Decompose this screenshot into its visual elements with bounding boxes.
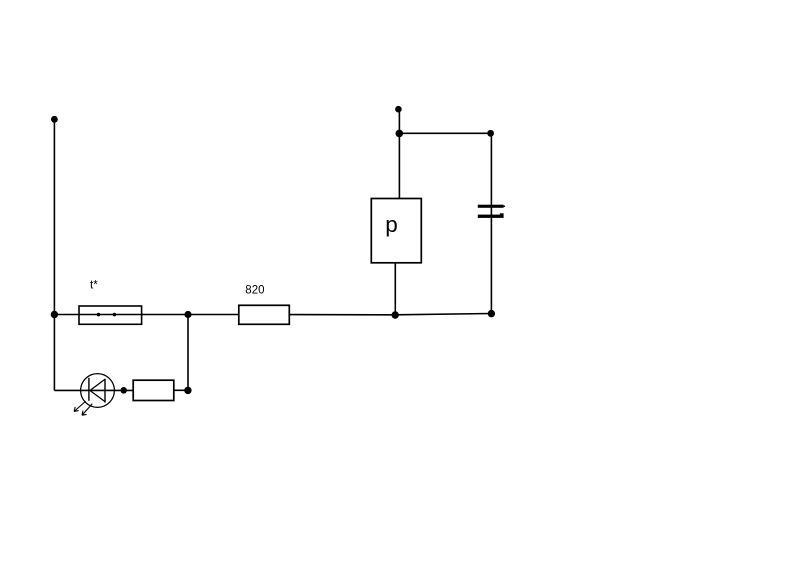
node top-right corner: [487, 130, 494, 137]
node lamp branch right: [184, 387, 191, 394]
wire left vertical from terminal to bottom rail: [53, 119, 55, 314]
sensor t* box: [79, 306, 142, 324]
wire lamp branch horizontal through LED: [54, 389, 133, 391]
capacitor top plate: [478, 205, 504, 208]
svg-text:t*: t*: [90, 280, 98, 292]
wire bottom rail left segment through sensor box: [54, 314, 238, 316]
wire bottom rail middle segment: [289, 314, 395, 316]
wire vertical from junction down to lamp branch: [187, 315, 189, 391]
capacitor bottom plate right bump: [500, 213, 504, 214]
LED cathode bar: [88, 378, 90, 401]
wire right vertical through capacitor: [490, 133, 492, 313]
capacitor top plate right tail: [503, 206, 505, 207]
resistor 820 box: [239, 305, 289, 324]
node left rail junction: [51, 311, 58, 318]
node between LED and resistor: [120, 387, 127, 394]
node top-left terminal: [51, 116, 58, 123]
wire top rail horizontal: [399, 132, 491, 134]
LED triangle lower edge: [90, 391, 105, 402]
node top terminal: [395, 106, 402, 113]
wire from p box bottom to rail: [394, 263, 396, 315]
capacitor bottom plate: [478, 215, 504, 218]
contact dot 2 inside t* box: [113, 313, 117, 317]
LED emission arrow 2: [82, 404, 92, 416]
LED triangle base bar: [104, 379, 106, 403]
node junction right of sensor: [184, 311, 191, 318]
wire lamp branch vertical left: [53, 315, 55, 391]
wire from resistor to right node: [174, 389, 188, 391]
resistor lamp-branch box: [133, 380, 174, 400]
node bottom of p box: [392, 311, 399, 318]
wire vertical from top terminal to p box top: [398, 109, 400, 198]
node top rail junction: [396, 130, 404, 138]
wire bottom rail right segment: [395, 314, 491, 315]
contact dot 1 inside t* box: [97, 313, 101, 317]
LED emission arrow 1: [74, 401, 86, 411]
component p box: [371, 199, 421, 263]
node bottom-right corner: [488, 310, 495, 317]
svg-text:p: p: [385, 212, 398, 237]
LED circle: [81, 374, 115, 408]
svg-text:820: 820: [245, 284, 264, 296]
LED triangle upper edge: [90, 379, 105, 390]
